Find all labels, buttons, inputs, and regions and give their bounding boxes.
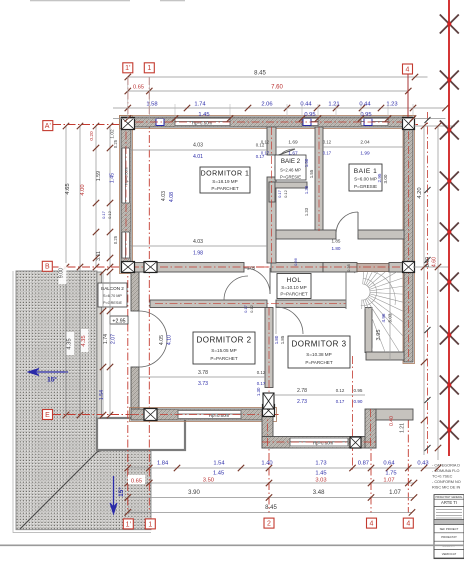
svg-text:P=PARCHET: P=PARCHET [280, 292, 308, 297]
right dims [413, 125, 455, 127]
column V3 bottom [263, 393, 274, 409]
svg-text:4.20: 4.20 [417, 187, 423, 198]
X mark y181 [440, 172, 459, 191]
column bay-left [263, 405, 275, 417]
room DORMITOR 1 [200, 167, 250, 193]
svg-text:0.12: 0.12 [283, 189, 288, 198]
svg-text:2.78: 2.78 [297, 388, 307, 394]
svg-text:DORMITOR 1: DORMITOR 1 [201, 171, 250, 178]
svg-text:- CATEGORIA D: - CATEGORIA D [432, 464, 460, 468]
svg-text:- COMUNA FLO: - COMUNA FLO [432, 469, 459, 473]
svg-text:3.48: 3.48 [313, 490, 325, 496]
svg-text:1.84: 1.84 [157, 461, 169, 467]
door BAIE1 [336, 212, 358, 234]
room DORMITOR 2 [193, 332, 255, 364]
svg-text:0.12: 0.12 [323, 140, 332, 145]
svg-text:Hp=0.60m: Hp=0.60m [192, 120, 213, 125]
door D3 [276, 307, 303, 334]
B axis wall [131, 263, 244, 273]
svg-text:1.54: 1.54 [213, 461, 225, 467]
svg-text:3.03: 3.03 [315, 478, 326, 484]
bottom dims [128, 467, 438, 469]
svg-text:S=6.70 MP: S=6.70 MP [103, 294, 122, 298]
bottom frame line [0, 544, 464, 546]
svg-text:1.38: 1.38 [304, 185, 309, 194]
axis 2 vertical bottom [268, 395, 270, 513]
svg-text:2: 2 [267, 521, 271, 528]
svg-text:0.12: 0.12 [257, 370, 266, 375]
svg-text:3.73: 3.73 [198, 381, 208, 387]
svg-text:0.25: 0.25 [113, 235, 118, 244]
svg-text:S=10.10 MP: S=10.10 MP [281, 285, 306, 290]
wall H2 [269, 182, 307, 188]
svg-text:1.75: 1.75 [385, 471, 396, 477]
svg-text:4.35: 4.35 [67, 338, 73, 349]
elevation +2.95 [110, 316, 128, 325]
svg-text:4.03: 4.03 [193, 239, 203, 245]
svg-text:1.05: 1.05 [247, 266, 256, 271]
terrace slab [97, 418, 185, 450]
svg-text:P=GRESIE: P=GRESIE [354, 184, 377, 189]
svg-text:15°: 15° [117, 487, 125, 497]
svg-text:DORMITOR 2: DORMITOR 2 [196, 336, 251, 345]
door BAIE2 [276, 149, 295, 156]
svg-text:1': 1' [125, 65, 130, 72]
svg-text:SEF PROIECT: SEF PROIECT [440, 527, 459, 531]
wall V1 [267, 127, 276, 155]
svg-text:3.95: 3.95 [376, 330, 382, 341]
svg-text:8.45: 8.45 [265, 505, 277, 511]
svg-text:4.01: 4.01 [193, 154, 203, 160]
svg-text:4.35: 4.35 [81, 335, 87, 346]
svg-text:0.35: 0.35 [346, 263, 351, 272]
svg-text:4.00: 4.00 [80, 184, 86, 195]
stair bottom wall [366, 352, 404, 360]
svg-text:1.69: 1.69 [288, 140, 298, 146]
axis 1-prime vertical [127, 77, 129, 513]
wall V2 [315, 127, 323, 231]
wall V3 [265, 308, 273, 388]
axis line x427 [427, 112, 429, 455]
marker 1-prime bottom [123, 519, 133, 529]
svg-text:1.67: 1.67 [288, 151, 298, 157]
svg-text:0.95: 0.95 [354, 388, 363, 393]
svg-text:0.17: 0.17 [101, 210, 106, 219]
column B-left2 [144, 262, 157, 273]
axis 4b vertical bottom [407, 420, 409, 513]
X mark y385 [440, 376, 459, 395]
marker 4 top [403, 64, 413, 74]
top dims [128, 76, 428, 78]
marker 1 bottom [145, 519, 155, 529]
svg-text:1.74: 1.74 [103, 334, 109, 344]
X mark y335 [440, 326, 459, 345]
svg-text:15°: 15° [47, 376, 57, 384]
svg-text:1.85: 1.85 [280, 335, 285, 344]
svg-text:0.12: 0.12 [261, 140, 270, 145]
svg-text:P=PARCHET: P=PARCHET [210, 356, 238, 361]
svg-text:4.03: 4.03 [161, 191, 167, 201]
svg-text:9.00: 9.00 [59, 268, 65, 278]
marker E [43, 410, 53, 420]
svg-text:1: 1 [148, 521, 152, 528]
svg-text:S=6.00 MP: S=6.00 MP [354, 177, 377, 182]
svg-text:4.08: 4.08 [169, 192, 175, 202]
marker B [42, 261, 52, 271]
axis A-prime horizontal [53, 124, 418, 126]
svg-text:1.59: 1.59 [96, 171, 102, 181]
marker 1 top [144, 63, 154, 73]
svg-text:P=PARCHET: P=PARCHET [211, 186, 239, 191]
interior dims BAIE1 [323, 146, 404, 148]
window top wall [302, 118, 318, 126]
svg-text:1.33: 1.33 [304, 207, 309, 216]
svg-text:0.87: 0.87 [358, 461, 369, 467]
room DORMITOR 3 [288, 336, 350, 368]
svg-text:0.17: 0.17 [243, 304, 248, 313]
room BALCON 2 [98, 283, 127, 307]
X mark y430 [440, 421, 459, 440]
X mark y80 [440, 71, 459, 90]
marker A-prime [43, 121, 53, 131]
svg-text:1.45: 1.45 [213, 471, 224, 477]
svg-text:4.65: 4.65 [65, 183, 71, 194]
svg-text:1.45: 1.45 [315, 471, 326, 477]
wall H3 [276, 230, 336, 239]
svg-text:1.50: 1.50 [304, 158, 309, 167]
svg-text:2.73: 2.73 [297, 399, 307, 405]
door D2 [224, 276, 248, 300]
svg-text:0.65: 0.65 [133, 85, 144, 91]
svg-text:1.45: 1.45 [110, 173, 116, 183]
svg-text:0.86: 0.86 [293, 257, 298, 266]
column bay-right [350, 437, 361, 448]
svg-text:2.06: 2.06 [261, 102, 272, 108]
marker 4b bottom [403, 518, 413, 528]
svg-text:0.12: 0.12 [336, 388, 345, 393]
svg-text:1.07: 1.07 [383, 478, 394, 484]
svg-text:P=GRESIE: P=GRESIE [103, 301, 123, 305]
window top wall [361, 118, 388, 126]
svg-text:4.03: 4.03 [193, 143, 203, 149]
svg-text:1.85: 1.85 [332, 239, 341, 244]
svg-text:3.90: 3.90 [188, 490, 200, 496]
svg-text:0.17: 0.17 [261, 151, 270, 156]
svg-text:1.73: 1.73 [315, 461, 326, 467]
column B-right [403, 262, 415, 273]
svg-text:1.54: 1.54 [99, 390, 105, 400]
svg-text:8.45: 8.45 [254, 71, 266, 77]
axis stair vertical [352, 356, 354, 470]
axis 1 vertical [148, 77, 150, 513]
svg-text:P=PARCHET: P=PARCHET [305, 360, 333, 365]
top exterior wall [120, 116, 415, 129]
svg-text:VERIFICAT: VERIFICAT [442, 552, 457, 556]
window left wall [122, 148, 130, 203]
balcony parapet [97, 272, 102, 418]
interior dims D2 [139, 376, 265, 378]
svg-text:0.25: 0.25 [113, 139, 118, 148]
svg-text:1.80: 1.80 [332, 246, 341, 251]
svg-text:4.05: 4.05 [159, 335, 165, 345]
window left wall [122, 232, 130, 258]
svg-text:1.21: 1.21 [328, 102, 339, 108]
svg-text:BALCON 2: BALCON 2 [101, 286, 124, 291]
svg-text:1.45: 1.45 [198, 112, 209, 118]
svg-text:0.90: 0.90 [354, 399, 363, 404]
svg-text:1.80: 1.80 [274, 335, 279, 344]
svg-text:3.78: 3.78 [198, 370, 208, 376]
svg-text:1.99: 1.99 [360, 151, 370, 157]
svg-text:S=18.19 MP: S=18.19 MP [212, 179, 237, 184]
svg-text:0.20: 0.20 [89, 131, 95, 141]
svg-text:0.64: 0.64 [383, 461, 395, 467]
svg-text:P=GRESIE: P=GRESIE [280, 175, 301, 180]
svg-text:4: 4 [406, 66, 410, 73]
room HOL [277, 274, 311, 299]
slope arrow left [28, 369, 68, 376]
svg-text:7.60: 7.60 [271, 85, 283, 91]
interior dims D1 [131, 149, 267, 151]
svg-text:4.10: 4.10 [167, 335, 173, 345]
svg-text:PROIECTANT GENERAL: PROIECTANT GENERAL [435, 496, 463, 499]
svg-text:1.07: 1.07 [389, 490, 401, 496]
svg-text:TC+0.7SEC: TC+0.7SEC [432, 475, 453, 479]
svg-text:0.17: 0.17 [323, 151, 332, 156]
svg-text:4: 4 [370, 521, 374, 528]
bottom exterior wall [130, 408, 277, 422]
svg-text:B: B [45, 264, 50, 271]
svg-text:3.11: 3.11 [96, 251, 102, 261]
left wall lower [131, 272, 139, 311]
interior dims BAIE2 [276, 146, 315, 148]
marker 2 bottom [264, 518, 274, 528]
bay bottom wall [262, 437, 376, 449]
left exterior wall [120, 116, 133, 274]
svg-text:1: 1 [147, 65, 151, 72]
svg-text:0.95: 0.95 [304, 112, 315, 118]
svg-text:0.12: 0.12 [249, 304, 254, 313]
svg-text:2.07: 2.07 [111, 334, 117, 344]
right exterior wall [403, 116, 415, 364]
svg-text:3.50: 3.50 [203, 478, 214, 484]
svg-text:1.30: 1.30 [256, 387, 261, 396]
svg-text:BAIE 1: BAIE 1 [354, 168, 378, 175]
svg-text:BAIE 2: BAIE 2 [281, 158, 301, 165]
svg-text:A': A' [45, 123, 51, 130]
section line with X marks [448, 0, 450, 456]
svg-text:Hp=0.60m: Hp=0.60m [209, 413, 230, 418]
axis E horizontal [53, 414, 280, 416]
svg-text:0.17: 0.17 [336, 399, 345, 404]
svg-text:1.21: 1.21 [400, 423, 406, 433]
title block [434, 495, 464, 559]
svg-text:S=10.38 MP: S=10.38 MP [306, 352, 331, 357]
marker 1-prime top [123, 63, 133, 73]
svg-text:E: E [45, 412, 50, 419]
bay left wall [262, 409, 273, 448]
D3 right wall [365, 308, 372, 353]
room BAIE 1 [349, 164, 382, 191]
bay right wall [365, 409, 376, 448]
svg-text:2.95: 2.95 [377, 173, 382, 182]
balcony double door [139, 311, 167, 339]
svg-text:HOL: HOL [286, 277, 301, 284]
room BAIE 2 [275, 155, 306, 180]
X mark y232 [440, 223, 459, 242]
svg-text:1.98: 1.98 [193, 251, 203, 257]
svg-text:4.96: 4.96 [381, 313, 386, 322]
X mark y130 [440, 121, 459, 140]
svg-text:Hp=0.60m: Hp=0.60m [125, 167, 129, 185]
column top-left [122, 118, 135, 130]
svg-text:0.12: 0.12 [107, 210, 112, 219]
svg-text:1.55: 1.55 [309, 169, 314, 178]
svg-text:4: 4 [406, 521, 410, 528]
svg-text:+2.95: +2.95 [112, 319, 125, 325]
svg-text:1.74: 1.74 [194, 102, 206, 108]
svg-text:0.17: 0.17 [257, 381, 266, 386]
roof hip diagonal [20, 421, 172, 529]
svg-text:3.00: 3.00 [383, 174, 388, 183]
window top wall [175, 118, 230, 126]
svg-text:0.95: 0.95 [360, 112, 371, 118]
left dims [65, 126, 67, 415]
axis 4a vertical bottom [370, 424, 372, 513]
svg-text:1': 1' [126, 521, 131, 528]
svg-text:4.60: 4.60 [432, 257, 438, 267]
svg-text:- CONFORM NO: - CONFORM NO [432, 480, 461, 484]
column B-left1 [122, 262, 135, 273]
svg-text:1.58: 1.58 [146, 102, 157, 108]
svg-text:1.40: 1.40 [261, 461, 272, 467]
svg-text:0.43: 0.43 [417, 461, 428, 467]
svg-text:2.04: 2.04 [360, 140, 370, 146]
svg-text:0.17: 0.17 [277, 189, 282, 198]
svg-text:S=2.46 MP: S=2.46 MP [280, 168, 301, 173]
svg-text:ARTE TI: ARTE TI [441, 500, 457, 505]
marker 4a bottom [367, 518, 377, 528]
svg-text:5.03: 5.03 [388, 313, 393, 322]
X mark y282 [440, 273, 459, 292]
svg-text:PROIECTAT: PROIECTAT [441, 535, 457, 539]
X mark y24 [440, 15, 459, 34]
svg-text:1.02: 1.02 [110, 129, 116, 139]
roof hatch area [16, 271, 185, 530]
svg-text:0.65: 0.65 [131, 479, 142, 485]
svg-text:RISC MIC DE IN: RISC MIC DE IN [432, 485, 461, 489]
axis B horizontal [53, 266, 413, 268]
interior dims D3 [273, 394, 365, 396]
wall centerlines [121, 121, 413, 123]
door D1 from HOL [244, 268, 270, 294]
svg-text:0.40: 0.40 [389, 416, 395, 426]
slope arrow bottom [110, 476, 117, 514]
svg-text:DORMITOR 3: DORMITOR 3 [291, 340, 346, 349]
wall H4 [150, 300, 267, 308]
column bottom-left [144, 409, 157, 421]
svg-text:S=15.05 MP: S=15.05 MP [211, 348, 236, 353]
svg-text:Hp=0.60m: Hp=0.60m [313, 441, 334, 446]
column top-right [403, 118, 415, 130]
